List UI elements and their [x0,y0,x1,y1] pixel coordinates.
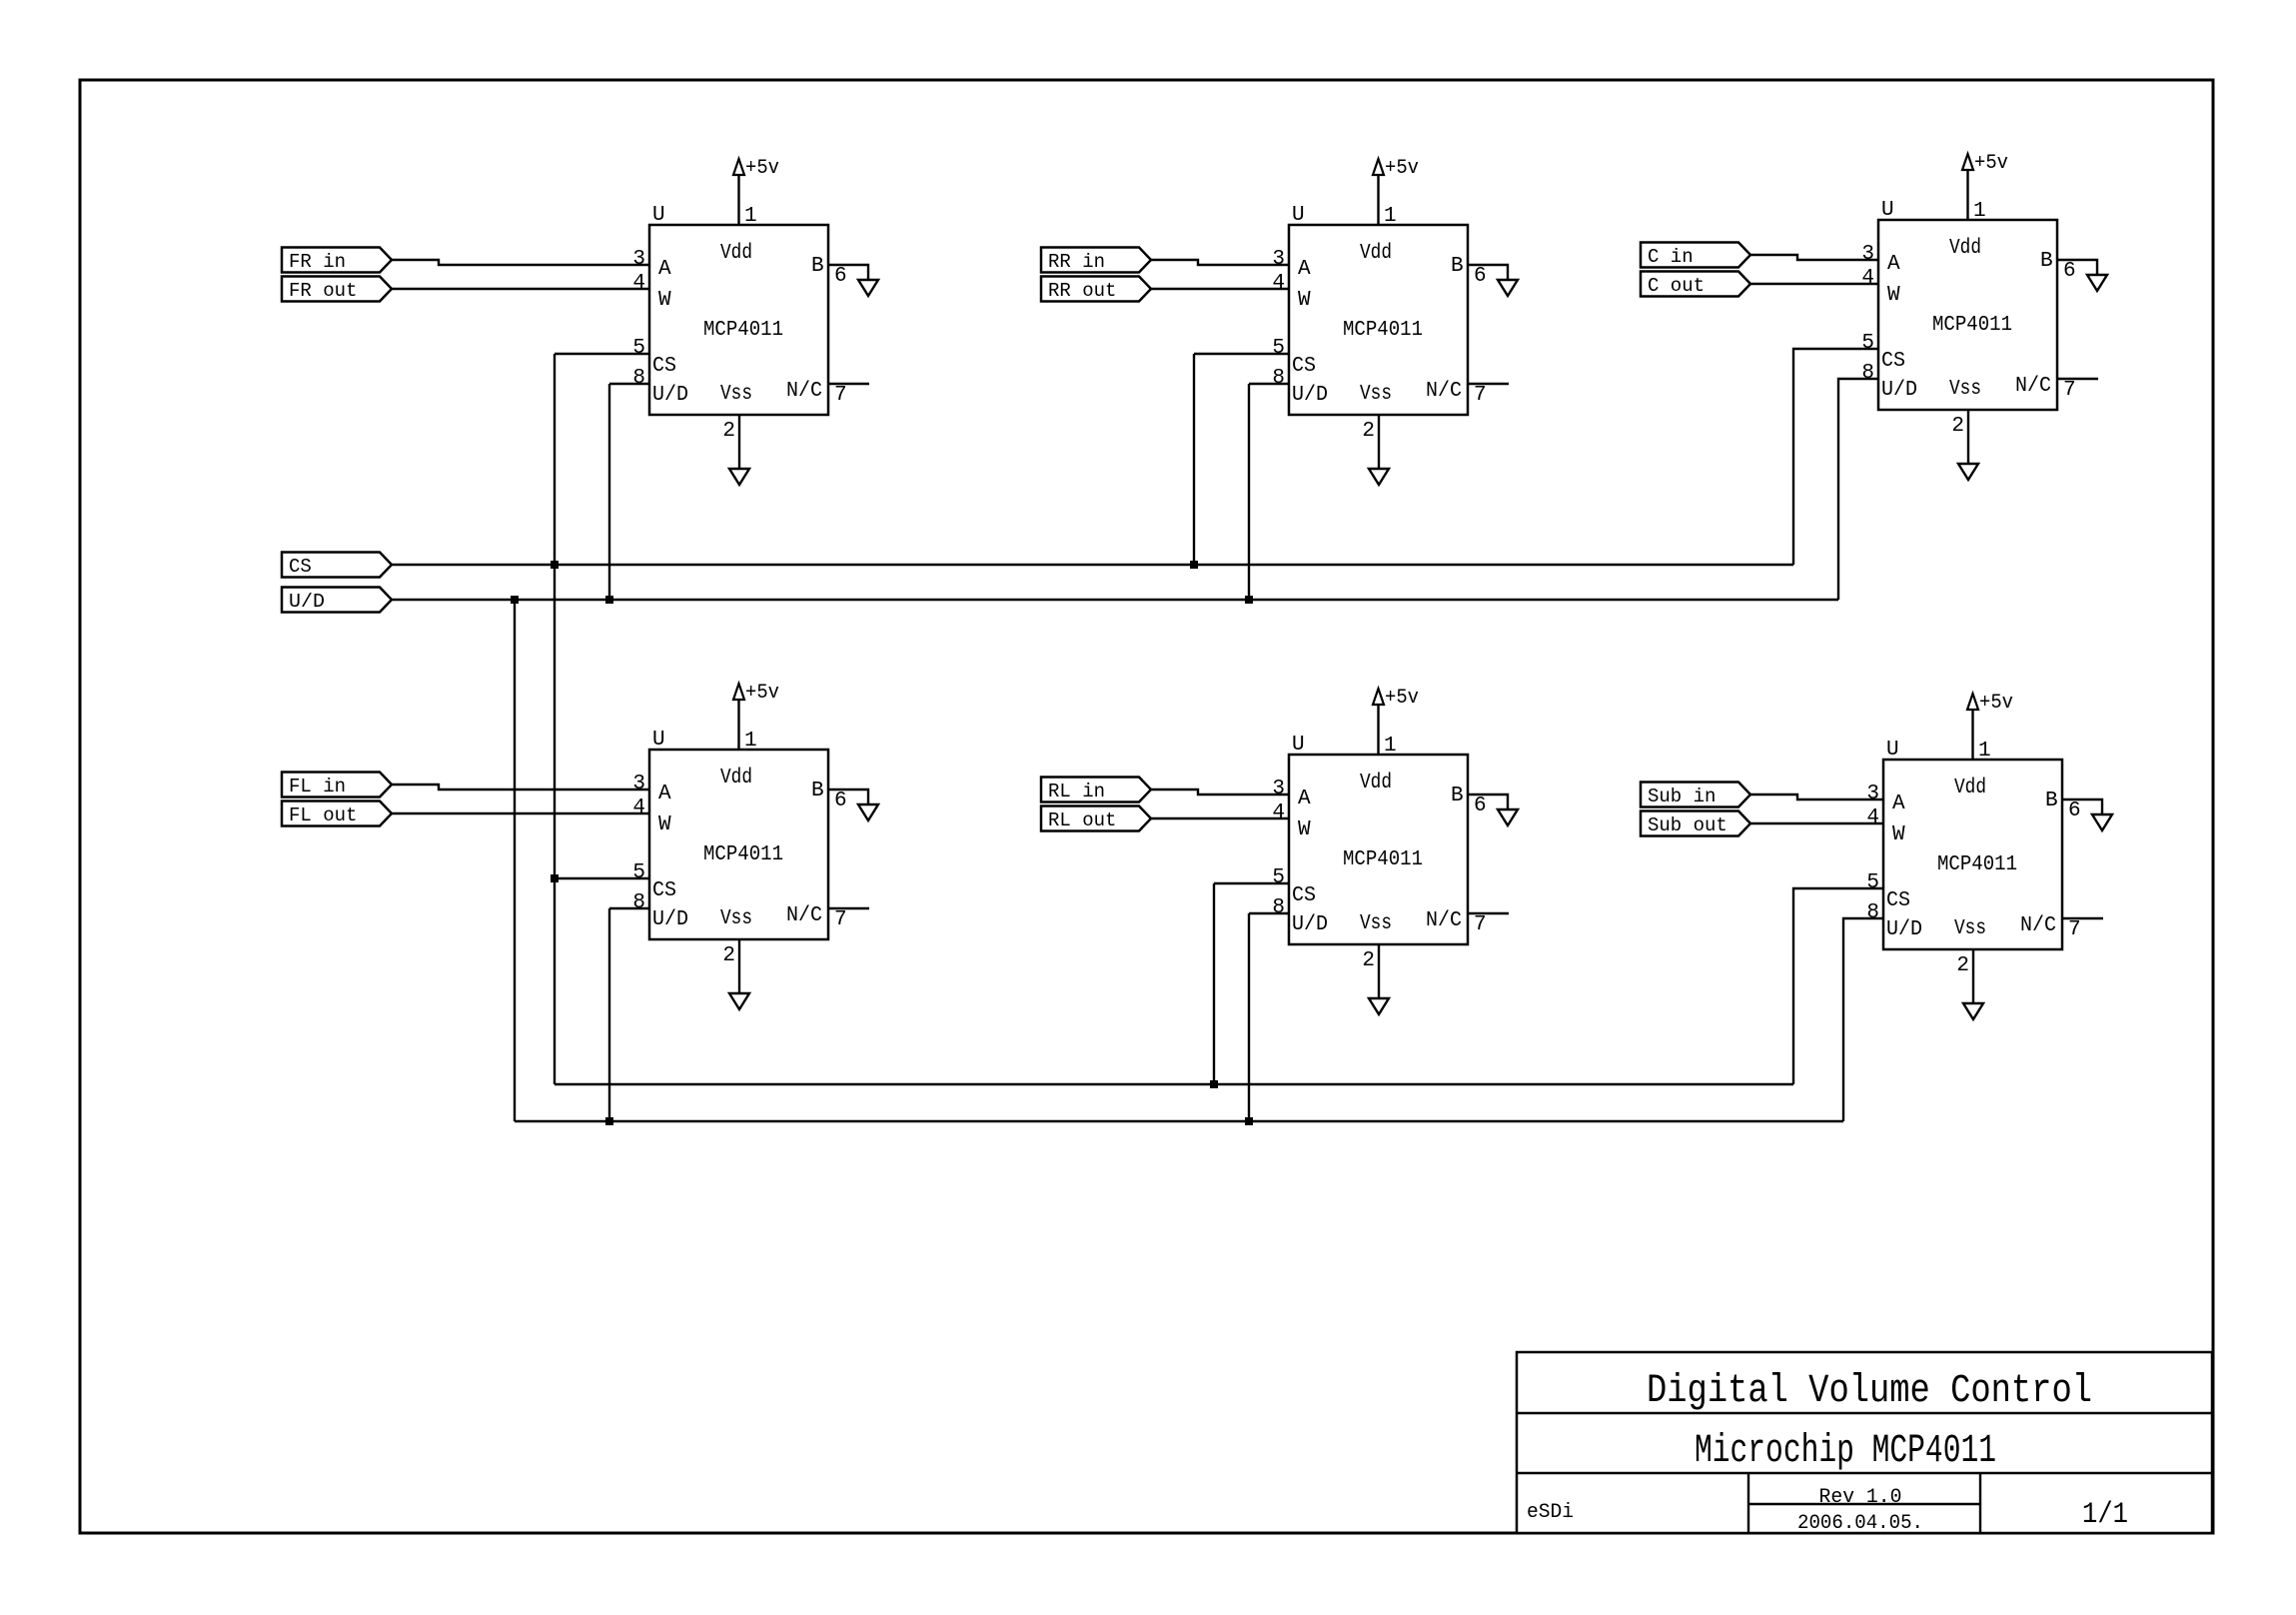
svg-text:4: 4 [632,797,645,819]
svg-text:8: 8 [632,891,645,914]
net flag "FR in" [282,248,392,273]
IC U (RL): ground symbol at pin 6 [1498,809,1518,825]
IC U (RR): pin 7 N/C stub wire [1468,383,1509,385]
svg-text:U: U [1292,734,1305,757]
junction U/D row2 / U RL pin 8 [1245,1117,1253,1125]
net flag "CS" [282,553,392,578]
wire RR out to U RR pin 4 [1151,288,1289,290]
wire RL in to U RL pin 3 [1151,790,1289,795]
svg-text:FL out: FL out [289,805,357,826]
wire C in to U C pin 3 [1750,255,1878,260]
IC U (FL): ground symbol at pin 6 [858,805,878,820]
IC U (C): ground symbol at pin 6 [2087,275,2107,291]
svg-text:Vss: Vss [1954,917,1986,940]
IC U (FR): ground symbol at pin 6 [858,280,878,296]
net flag "RR out" [1041,277,1151,302]
svg-text:Vss: Vss [1360,383,1392,406]
svg-text:3: 3 [1861,243,1874,266]
svg-text:U/D: U/D [1886,918,1922,941]
svg-text:4: 4 [632,272,645,295]
wire FL out to U FL pin 4 [392,812,649,814]
svg-text:A: A [658,783,671,806]
svg-text:8: 8 [1861,362,1874,385]
svg-text:Vdd: Vdd [720,767,752,790]
svg-text:CS: CS [1292,355,1316,378]
IC U (Sub): +5v power arrow symbol [1967,694,1978,710]
svg-text:3: 3 [1866,783,1879,806]
svg-text:U: U [652,204,665,227]
svg-text:3: 3 [632,248,645,271]
svg-text:FR out: FR out [289,280,357,302]
svg-text:5: 5 [632,337,645,360]
svg-text:RL in: RL in [1048,781,1105,803]
svg-text:2: 2 [722,944,735,967]
IC U (FL): pin 2 Vss wire to ground [738,939,740,993]
net flag "FL out" [282,802,392,826]
IC U (RL): pin 2 Vss wire to ground [1378,944,1380,998]
svg-text:U/D: U/D [1292,384,1328,407]
wire Sub out to U Sub pin 4 [1750,822,1883,824]
title block row divider 2 [1517,1472,2212,1474]
wire CS bus row 2 [555,1083,1793,1085]
svg-text:MCP4011: MCP4011 [1343,319,1423,342]
IC U (RL): pin 7 N/C stub wire [1468,912,1509,914]
svg-text:B: B [1451,785,1464,807]
svg-text:1: 1 [744,730,757,753]
svg-text:4: 4 [1272,272,1285,295]
IC U (C): pin 1 Vdd wire to +5v [1966,170,1968,220]
svg-text:U: U [1881,199,1894,222]
svg-text:5: 5 [632,861,645,884]
IC U (FR channel MCP4011): body [649,225,828,415]
wire U/D drop from U FR pin 8 [609,384,649,600]
wire U/D drop from U RR pin 8 [1249,384,1289,600]
IC U (FR): pin 1 Vdd wire to +5v [737,175,739,225]
IC U (C): pin 7 N/C stub wire [2057,378,2098,380]
svg-text:5: 5 [1861,332,1874,355]
svg-text:Vss: Vss [720,383,752,406]
svg-text:U: U [1292,204,1305,227]
svg-text:U: U [652,729,665,752]
svg-text:+5v: +5v [1979,692,2013,715]
svg-text:3: 3 [1272,778,1285,801]
svg-text:B: B [2045,790,2058,812]
svg-text:6: 6 [1474,795,1487,817]
IC U (RL): +5v power arrow symbol [1373,689,1384,705]
svg-text:U/D: U/D [1881,379,1917,402]
wire RL out to U RL pin 4 [1151,817,1289,819]
wire U/D drop from U RL pin 8 [1249,913,1289,1121]
svg-text:Vdd: Vdd [1949,237,1981,260]
IC U (RL): pin 6 B wire to ground [1468,795,1508,809]
IC U (FL): pin 1 Vdd wire to +5v [737,700,739,750]
svg-text:FL in: FL in [289,776,346,798]
IC U (Sub): pin 6 B wire to ground [2062,800,2102,814]
IC U (FL): pin 6 B wire to ground [828,790,868,805]
svg-text:Vss: Vss [720,907,752,930]
svg-text:Rev 1.0: Rev 1.0 [1819,1486,1902,1509]
svg-text:N/C: N/C [1426,380,1462,403]
svg-text:1: 1 [744,205,757,228]
svg-text:MCP4011: MCP4011 [1937,853,2017,876]
svg-text:4: 4 [1861,267,1874,290]
svg-text:6: 6 [2063,260,2076,283]
svg-text:3: 3 [632,773,645,796]
svg-text:7: 7 [2063,379,2076,402]
IC U (RL): ground symbol at pin 2 [1369,998,1389,1014]
svg-text:4: 4 [1272,802,1285,824]
svg-text:B: B [1451,255,1464,278]
wire CS riser to U C pin 5 [1793,349,1878,565]
IC U (Sub): pin 1 Vdd wire to +5v [1971,710,1973,760]
svg-text:U: U [1886,739,1899,762]
svg-text:A: A [1298,258,1311,281]
IC U (RL): pin 1 Vdd wire to +5v [1377,705,1379,755]
junction U/D / row 2 drop [511,596,519,604]
junction CS / U FR pin 5 [551,561,559,569]
svg-text:U/D: U/D [652,908,688,931]
IC U (FL): ground symbol at pin 2 [729,993,749,1009]
svg-text:A: A [1887,253,1900,276]
IC U (C): +5v power arrow symbol [1962,154,1973,170]
IC U (Sub): pin 2 Vss wire to ground [1972,949,1974,1003]
svg-text:B: B [811,255,824,278]
svg-text:Vdd: Vdd [1360,242,1392,265]
title block column divider right [1979,1473,1981,1533]
svg-text:W: W [658,813,671,836]
IC U (FL channel MCP4011): body [649,750,828,939]
IC U (RR): pin 2 Vss wire to ground [1378,415,1380,469]
IC U (FL): pin 7 N/C stub wire [828,907,869,909]
net flag "Sub out" [1641,811,1750,836]
junction CS / U RR pin 5 [1190,561,1198,569]
svg-text:A: A [1892,793,1905,815]
svg-text:U/D: U/D [289,591,325,613]
svg-text:6: 6 [2068,800,2081,822]
svg-text:+5v: +5v [745,682,779,705]
svg-text:8: 8 [1272,896,1285,919]
junction U/D row2 / U FL pin 8 [605,1117,613,1125]
svg-text:4: 4 [1866,807,1879,829]
svg-text:+5v: +5v [745,157,779,180]
svg-text:2: 2 [722,420,735,443]
svg-text:CS: CS [1292,884,1316,907]
IC U (FL): +5v power arrow symbol [733,684,744,700]
junction CS row2 / U RL pin 5 [1210,1080,1218,1088]
svg-text:U/D: U/D [1292,913,1328,936]
svg-text:3: 3 [1272,248,1285,271]
IC U (RR): pin 6 B wire to ground [1468,265,1508,280]
svg-text:Sub out: Sub out [1648,814,1727,836]
net flag "FL in" [282,773,392,798]
IC U (Sub): pin 7 N/C stub wire [2062,917,2103,919]
svg-text:Vdd: Vdd [1360,772,1392,795]
wire FL in to U FL pin 3 [392,785,649,790]
svg-text:6: 6 [1474,265,1487,288]
svg-text:+5v: +5v [1974,152,2008,175]
svg-text:MCP4011: MCP4011 [703,843,783,866]
IC U (FR): pin 2 Vss wire to ground [738,415,740,469]
svg-text:CS: CS [1886,889,1910,912]
wire CS tap to U FL pin 5 [555,877,649,879]
svg-text:2: 2 [1362,420,1375,443]
svg-text:2: 2 [1951,415,1964,438]
wire U/D drop from U FL pin 8 [609,908,649,1121]
svg-text:CS: CS [652,355,676,378]
svg-text:B: B [2040,250,2053,273]
IC U (FR): pin 7 N/C stub wire [828,383,869,385]
title block row divider 1 [1517,1412,2212,1414]
wire FR out to U FR pin 4 [392,288,649,290]
IC U (RL channel MCP4011): body [1289,755,1468,944]
svg-text:Vss: Vss [1360,912,1392,935]
svg-text:Digital Volume Control: Digital Volume Control [1647,1369,2092,1414]
svg-text:2006.04.05.: 2006.04.05. [1797,1512,1923,1535]
svg-text:N/C: N/C [1426,909,1462,932]
net flag "RL out" [1041,807,1151,831]
svg-text:+5v: +5v [1385,687,1419,710]
wire U/D riser to U C pin 8 [1838,379,1878,600]
title block outline [1517,1352,2212,1533]
wire Sub in to U Sub pin 3 [1750,795,1883,800]
svg-text:5: 5 [1866,871,1879,894]
IC U (C): pin 6 B wire to ground [2057,260,2097,275]
junction U/D / U FR pin 8 [605,596,613,604]
title block column divider left [1747,1473,1749,1533]
svg-text:C in: C in [1648,246,1694,268]
svg-text:5: 5 [1272,866,1285,889]
net flag "RR in" [1041,248,1151,273]
svg-text:W: W [658,289,671,312]
svg-text:1: 1 [1384,205,1397,228]
svg-text:8: 8 [1272,367,1285,390]
net flag "C in" [1641,243,1750,268]
wire C out to U C pin 4 [1750,283,1878,285]
svg-text:MCP4011: MCP4011 [703,319,783,342]
svg-text:RR out: RR out [1048,280,1116,302]
svg-text:W: W [1298,818,1311,841]
svg-text:eSDi: eSDi [1527,1501,1574,1524]
svg-text:A: A [1298,788,1311,810]
wire U/D drop to row 2 [514,600,516,1121]
svg-text:W: W [1298,289,1311,312]
IC U (RR channel MCP4011): body [1289,225,1468,415]
wire CS drop from U RR pin 5 [1194,354,1289,565]
svg-text:N/C: N/C [786,380,822,403]
svg-text:B: B [811,780,824,803]
IC U (Sub): ground symbol at pin 6 [2092,814,2112,830]
svg-text:Sub in: Sub in [1648,786,1716,807]
svg-text:A: A [658,258,671,281]
svg-text:1/1: 1/1 [2082,1498,2128,1532]
wire CS drop from U FR pin 5 down to row 2 [555,354,649,1084]
svg-text:5: 5 [1272,337,1285,360]
title block rev/date divider [1748,1503,1980,1505]
net flag "Sub in" [1641,783,1750,807]
wire U/D riser to U Sub pin 8 [1843,918,1883,1121]
svg-text:6: 6 [834,265,847,288]
net flag "FR out" [282,277,392,302]
IC U (C channel MCP4011): body [1878,220,2057,410]
junction CS / U FL pin 5 [551,874,559,882]
wire U/D bus row 1 [392,599,1838,601]
IC U (FR): pin 6 B wire to ground [828,265,868,280]
svg-text:MCP4011: MCP4011 [1343,848,1423,871]
svg-text:Vss: Vss [1949,378,1981,401]
wire CS drop from U RL pin 5 [1214,883,1289,1084]
svg-text:2: 2 [1956,954,1969,977]
svg-text:7: 7 [1474,913,1487,936]
net flag "C out" [1641,272,1750,297]
net flag "U/D" [282,588,392,613]
wire CS bus row 1 [392,564,1793,566]
net flag "RL in" [1041,778,1151,803]
svg-text:RL out: RL out [1048,809,1116,831]
svg-text:N/C: N/C [2020,914,2056,937]
svg-text:C out: C out [1648,275,1705,297]
svg-text:U/D: U/D [652,384,688,407]
IC U (C): pin 2 Vss wire to ground [1967,410,1969,464]
svg-text:N/C: N/C [2015,375,2051,398]
svg-text:7: 7 [834,384,847,407]
svg-text:8: 8 [1866,901,1879,924]
svg-text:1: 1 [1384,735,1397,758]
wire FR in to U FR pin 3 [392,260,649,265]
svg-text:CS: CS [1881,350,1905,373]
IC U (C): ground symbol at pin 2 [1958,464,1978,480]
svg-text:+5v: +5v [1385,157,1419,180]
svg-text:1: 1 [1978,740,1991,763]
svg-text:8: 8 [632,367,645,390]
svg-text:W: W [1892,823,1905,846]
IC U (FR): +5v power arrow symbol [733,159,744,175]
svg-text:MCP4011: MCP4011 [1932,314,2012,337]
svg-text:CS: CS [289,556,312,578]
wire CS riser to U Sub pin 5 [1793,888,1883,1084]
svg-text:1: 1 [1973,200,1986,223]
wire RR in to U RR pin 3 [1151,260,1289,265]
svg-text:7: 7 [834,908,847,931]
IC U (Sub): ground symbol at pin 2 [1963,1003,1983,1019]
svg-text:7: 7 [1474,384,1487,407]
wire U/D bus row 2 [515,1120,1843,1122]
svg-text:W: W [1887,284,1900,307]
svg-text:6: 6 [834,790,847,812]
svg-text:Vdd: Vdd [720,242,752,265]
svg-text:2: 2 [1362,949,1375,972]
svg-text:FR in: FR in [289,251,346,273]
svg-text:Vdd: Vdd [1954,777,1986,800]
svg-text:CS: CS [652,879,676,902]
IC U (RR): +5v power arrow symbol [1373,159,1384,175]
junction U/D / U RR pin 8 [1245,596,1253,604]
IC U (FR): ground symbol at pin 2 [729,469,749,485]
svg-text:N/C: N/C [786,904,822,927]
IC U (RR): ground symbol at pin 2 [1369,469,1389,485]
svg-text:RR in: RR in [1048,251,1105,273]
IC U (RR): ground symbol at pin 6 [1498,280,1518,296]
svg-text:7: 7 [2068,918,2081,941]
IC U (Sub channel MCP4011): body [1883,760,2062,949]
svg-text:Microchip MCP4011: Microchip MCP4011 [1695,1429,1996,1474]
IC U (RR): pin 1 Vdd wire to +5v [1377,175,1379,225]
